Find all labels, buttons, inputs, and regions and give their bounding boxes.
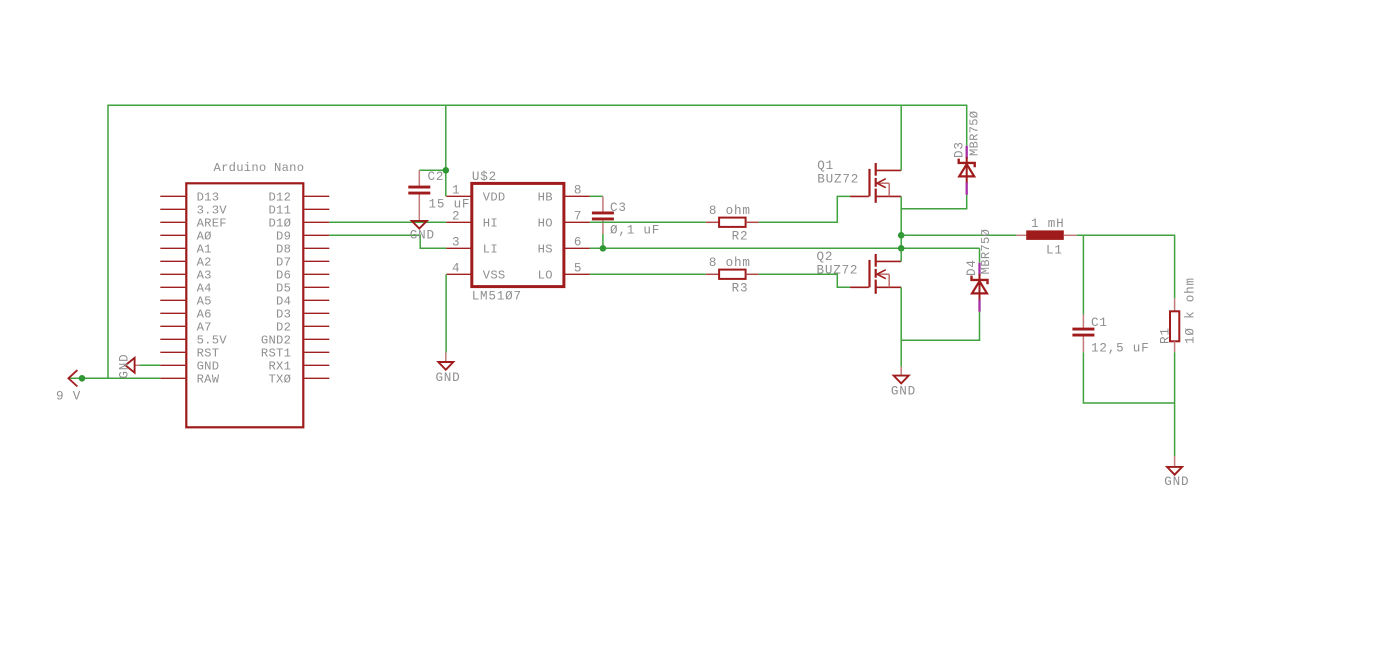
- svg-text:D5: D5: [276, 282, 291, 296]
- IC U$2 LM5107: [472, 170, 564, 303]
- svg-text:HS: HS: [538, 243, 553, 257]
- svg-text:R2: R2: [732, 230, 749, 244]
- svg-text:Arduino Nano: Arduino Nano: [214, 161, 305, 175]
- wire: HB to C3: [590, 195, 603, 197]
- svg-text:C1: C1: [1091, 316, 1108, 330]
- svg-text:Ø,1 uF: Ø,1 uF: [610, 223, 660, 237]
- U$2 pin numbers: [452, 183, 582, 275]
- transistor Q1 BUZ72: [817, 159, 901, 203]
- svg-text:D9: D9: [276, 230, 291, 244]
- Arduino Nano U1: [186, 161, 304, 427]
- U$2 pin names: [483, 191, 553, 283]
- svg-text:D4: D4: [965, 259, 979, 276]
- svg-text:C3: C3: [610, 201, 627, 215]
- svg-text:GND: GND: [410, 228, 435, 242]
- U$2 left pin stubs: [446, 196, 471, 274]
- wire: Q2 drain from HS node: [900, 248, 902, 261]
- svg-text:VDD: VDD: [483, 191, 506, 205]
- ground symbol at VSS: [435, 353, 460, 385]
- svg-text:3: 3: [452, 235, 460, 249]
- svg-text:LO: LO: [538, 269, 553, 283]
- svg-text:C2: C2: [428, 170, 445, 184]
- wire: top supply rail: [108, 105, 967, 378]
- wire: Q1 drain to rail: [900, 105, 902, 170]
- svg-text:A7: A7: [197, 321, 212, 335]
- svg-text:BUZ72: BUZ72: [817, 263, 859, 277]
- svg-text:4: 4: [452, 261, 460, 275]
- svg-text:5: 5: [574, 261, 582, 275]
- Arduino right pin stubs: [304, 196, 329, 378]
- resistor R1: [1159, 277, 1198, 352]
- diode D4 MBR750: [965, 229, 993, 312]
- wire: filter bottom: [1083, 352, 1174, 403]
- wire: VSS to ground: [445, 274, 447, 352]
- svg-text:D1Ø: D1Ø: [268, 217, 291, 231]
- svg-text:BUZ72: BUZ72: [817, 173, 859, 187]
- svg-text:A1: A1: [197, 243, 212, 257]
- wire: LO to R3: [590, 273, 706, 275]
- svg-text:Q1: Q1: [817, 159, 834, 173]
- svg-text:A3: A3: [197, 269, 212, 283]
- svg-text:2: 2: [452, 209, 460, 223]
- svg-text:A6: A6: [197, 308, 212, 322]
- wire: C1 top drop: [1082, 235, 1084, 314]
- svg-text:LM51Ø7: LM51Ø7: [472, 289, 522, 303]
- capacitor C1: [1072, 315, 1149, 356]
- svg-text:U$2: U$2: [472, 170, 497, 184]
- junction on 9V net: [79, 375, 86, 382]
- svg-text:D11: D11: [268, 204, 291, 218]
- Arduino left pin labels: [197, 191, 228, 387]
- junction at C2/VDD: [443, 167, 450, 174]
- capacitor C2: [408, 170, 470, 221]
- svg-text:5.5V: 5.5V: [197, 334, 228, 348]
- svg-text:R3: R3: [732, 282, 749, 296]
- svg-text:D3: D3: [952, 141, 966, 158]
- wire: L1 to output filter: [1077, 235, 1175, 298]
- svg-text:1: 1: [452, 183, 460, 197]
- wire: R1 bottom to ground: [1174, 352, 1176, 456]
- svg-text:D4: D4: [276, 295, 291, 309]
- transistor Q2 BUZ72: [817, 250, 902, 294]
- junction C3/HS: [600, 245, 607, 252]
- svg-text:D2: D2: [276, 321, 291, 335]
- svg-text:A5: A5: [197, 295, 212, 309]
- wire: D10 to HI: [329, 221, 446, 223]
- resistor R2: [706, 204, 759, 244]
- svg-text:GND: GND: [197, 360, 220, 374]
- svg-text:AØ: AØ: [197, 230, 212, 244]
- wire: Arduino GND pin to ground: [140, 364, 161, 366]
- wire: Q1 source down to output node: [900, 196, 902, 248]
- svg-text:A2: A2: [197, 256, 212, 270]
- svg-text:LI: LI: [483, 243, 498, 257]
- wire: Q2 source to ground: [900, 287, 902, 366]
- Arduino right pin labels: [261, 191, 291, 387]
- junction: HS node: [898, 245, 905, 252]
- svg-text:D8: D8: [276, 243, 291, 257]
- svg-text:8 ohm: 8 ohm: [709, 204, 751, 218]
- wire: R2 to Q1 gate: [759, 196, 850, 222]
- svg-text:TXØ: TXØ: [268, 373, 291, 387]
- capacitor C3: [592, 196, 660, 237]
- wire: D4 cathode drop: [979, 248, 981, 262]
- wire: output node to L1: [901, 234, 1016, 236]
- svg-text:A4: A4: [197, 282, 212, 296]
- svg-text:GND: GND: [891, 385, 916, 399]
- ground symbol at output: [1164, 456, 1189, 489]
- wire: R3 to Q2 gate: [759, 274, 850, 287]
- svg-text:GND2: GND2: [261, 334, 291, 348]
- U$2 right pin stubs: [564, 196, 590, 274]
- supply +9V arrow: [56, 370, 81, 403]
- svg-text:GND: GND: [435, 371, 460, 385]
- svg-text:RX1: RX1: [268, 360, 291, 374]
- svg-text:D12: D12: [268, 191, 291, 205]
- junction: output node: [898, 232, 905, 239]
- wire: HO to R2: [590, 221, 706, 223]
- wire: D3 branch: [901, 195, 967, 209]
- ground symbol at Arduino GND (rotated): [118, 354, 140, 379]
- svg-text:R1: R1: [1159, 327, 1173, 344]
- svg-text:MBR75Ø: MBR75Ø: [979, 229, 993, 274]
- wire: D9 to LI: [329, 235, 446, 248]
- ground symbol at Q2 source: [891, 367, 916, 399]
- svg-text:L1: L1: [1046, 244, 1063, 258]
- svg-text:1Ø k ohm: 1Ø k ohm: [1184, 277, 1198, 344]
- resistor R3: [706, 256, 759, 296]
- svg-text:Q2: Q2: [817, 250, 834, 264]
- svg-text:8: 8: [574, 183, 582, 197]
- svg-text:D3: D3: [276, 308, 291, 322]
- svg-text:GND: GND: [118, 354, 132, 379]
- svg-text:GND: GND: [1164, 475, 1189, 489]
- svg-text:VSS: VSS: [483, 269, 506, 283]
- wire: VDD drop from rail: [419, 105, 446, 196]
- svg-text:15 uF: 15 uF: [429, 198, 471, 212]
- svg-text:12,5 uF: 12,5 uF: [1091, 341, 1150, 355]
- wire: D4 anode to Q2 source: [901, 312, 979, 341]
- svg-text:HO: HO: [538, 217, 553, 231]
- svg-text:D7: D7: [276, 256, 291, 270]
- svg-text:HB: HB: [538, 191, 553, 205]
- Arduino left pin stubs: [160, 196, 185, 378]
- svg-text:9 V: 9 V: [56, 390, 81, 404]
- svg-text:6: 6: [574, 235, 582, 249]
- svg-text:D13: D13: [197, 191, 220, 205]
- ground symbol at C2: [410, 221, 435, 243]
- wire: HS net: [590, 247, 980, 249]
- wire: C3 bottom to HS net: [602, 234, 604, 248]
- svg-text:8 ohm: 8 ohm: [709, 256, 751, 270]
- svg-text:AREF: AREF: [197, 217, 227, 231]
- wire: 9V feed to RAW pin: [68, 377, 160, 379]
- svg-text:D6: D6: [276, 269, 291, 283]
- inductor L1: [1016, 217, 1076, 258]
- svg-text:RST1: RST1: [261, 347, 291, 361]
- svg-text:7: 7: [574, 209, 582, 223]
- svg-text:MBR75Ø: MBR75Ø: [968, 111, 982, 156]
- svg-text:RST: RST: [197, 347, 220, 361]
- svg-text:RAW: RAW: [197, 373, 220, 387]
- diode D3 MBR750: [952, 111, 981, 195]
- svg-text:3.3V: 3.3V: [197, 204, 228, 218]
- svg-text:HI: HI: [483, 217, 498, 231]
- svg-text:1 mH: 1 mH: [1031, 217, 1064, 231]
